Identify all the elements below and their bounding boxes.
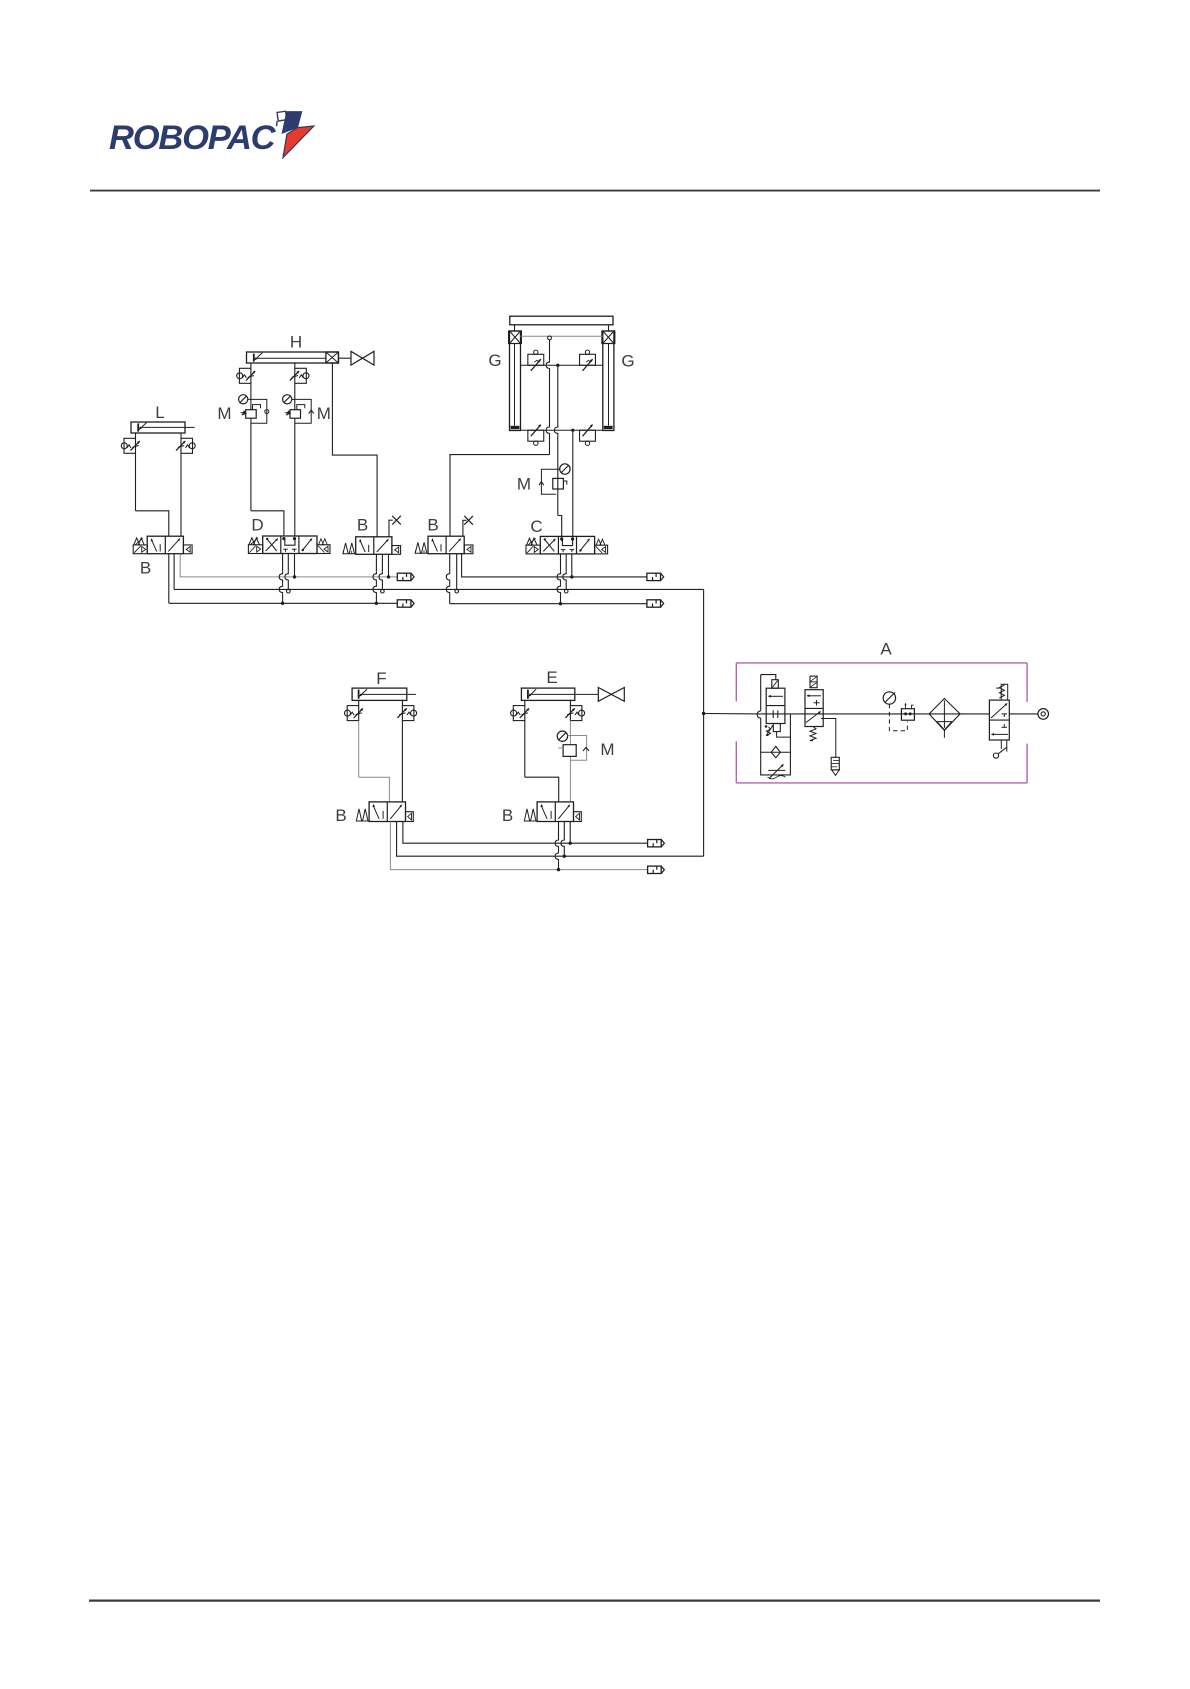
hand shut-off valve at E (bowtie) — [598, 688, 611, 702]
svg-text:A: A — [880, 640, 892, 659]
valve D 5/3 (cylinder H) — [263, 536, 317, 554]
wire G bottom line — [521, 429, 603, 431]
valve D port wires to buses — [282, 554, 284, 572]
logo lightning bolt navy flag — [282, 112, 302, 134]
check valve in soft-start — [761, 751, 791, 753]
svg-text:B: B — [140, 559, 151, 578]
svg-text:E: E — [546, 668, 557, 687]
silencer upper-left bus 1 — [397, 573, 411, 580]
svg-text:L: L — [155, 403, 164, 422]
valve B(L) port wire to bus 3 — [168, 554, 170, 603]
wire from G bottom line to valve C — [572, 430, 574, 536]
wire F left port — [358, 700, 360, 705]
wire E right port — [569, 700, 571, 705]
silencer upper-right bus 3 — [647, 600, 661, 607]
svg-text:G: G — [488, 351, 501, 370]
wire from G node down to valve B2 — [549, 340, 551, 360]
flow control valve at H left port — [237, 373, 243, 379]
cylinder G right — [603, 331, 614, 431]
throttle in soft-start — [768, 769, 785, 771]
wire G rod-end link line — [521, 335, 603, 337]
svg-text:B: B — [502, 806, 513, 825]
svg-text:M: M — [217, 404, 231, 423]
valve B 5/2 (cylinder F) — [369, 802, 405, 822]
wire from G mid line to valve C (via regulator) — [557, 365, 559, 425]
wire E right to valve — [569, 721, 571, 745]
valve B(F) port wire to bus 3 lower — [390, 822, 647, 870]
valve B 5/2 number 2 — [428, 536, 464, 554]
cylinder G left — [510, 331, 521, 431]
wire F right to valve — [401, 721, 403, 802]
svg-text:M: M — [317, 404, 331, 423]
valve B(F) port wire to bus 2 lower — [397, 822, 704, 857]
valve B 5/2 (cylinder L) — [147, 536, 183, 554]
svg-text:B: B — [335, 806, 346, 825]
wire regulator left to valve D — [251, 511, 284, 536]
valve B(L) port wire to bus 2 — [173, 554, 175, 590]
closed port marker X at valve B1 — [389, 520, 393, 537]
wire E left to valve — [524, 721, 526, 778]
flow control valve at L right port — [189, 443, 195, 449]
cylinder L body — [131, 422, 185, 433]
pressure regulator with gauge M (left, under H) — [250, 383, 252, 409]
svg-text:H: H — [290, 333, 302, 352]
logo small open square — [277, 111, 287, 121]
svg-text:M: M — [517, 475, 531, 494]
svg-text:D: D — [251, 516, 263, 535]
silencer upper-right bus 1 — [647, 573, 661, 580]
cylinder E body — [521, 688, 574, 700]
junction on G mid line — [556, 364, 559, 367]
wire F left to valve — [358, 721, 360, 778]
valve B(E) port wires to lower buses — [558, 822, 560, 839]
solenoid shut-off valve (unit A second element) — [810, 676, 817, 688]
wire from H X-box to valve B1 — [332, 363, 377, 537]
svg-text:B: B — [357, 516, 368, 535]
wire G mid line — [521, 364, 603, 366]
spring of manual valve — [1001, 684, 1008, 700]
pressure switch block in unit A — [901, 709, 914, 721]
flow control G upper-right — [580, 354, 596, 365]
violet group frame of unit A — [736, 662, 1027, 664]
exhaust branch to muffler — [821, 719, 836, 758]
svg-text:ROBOPAC: ROBOPAC — [109, 119, 277, 157]
node on G link line — [548, 336, 552, 340]
flow control valve at L left port — [121, 443, 127, 449]
main air line through unit A — [761, 713, 990, 715]
valve B1 port wires to buses — [375, 554, 377, 572]
silencer lower bus 1 — [648, 840, 662, 847]
valve B(L) port wire to bus 1 — [180, 554, 397, 577]
header horizontal rule — [90, 190, 1100, 192]
pressure gauge in unit A — [883, 692, 895, 704]
cylinder H coupling X-box — [326, 352, 339, 363]
manual actuator of valve — [1000, 740, 1002, 749]
manual shut-off valve (unit A last element) — [989, 700, 1009, 740]
cylinder G left stem — [514, 325, 516, 331]
valve B2 port wire to bus 2 — [456, 554, 458, 590]
silencer lower bus 3 — [648, 866, 662, 873]
bus 3 exhaust line upper-right — [450, 603, 647, 605]
footer horizontal rule — [89, 1599, 1100, 1601]
hand shut-off valve at H (bowtie) — [351, 351, 363, 365]
flow control G lower-right — [580, 430, 596, 441]
valve B 5/2 number 1 — [356, 537, 392, 555]
valve B2 port wire to bus 3 right — [449, 554, 451, 572]
cylinder G right stem — [608, 325, 610, 331]
wire L left port — [135, 433, 137, 438]
svg-text:B: B — [427, 516, 438, 535]
wire E left port — [524, 700, 526, 705]
flow control G lower-left — [528, 430, 544, 441]
wire H to hand valve — [338, 357, 351, 359]
valve C port wires to buses — [560, 554, 562, 572]
junction on G bottom line — [571, 429, 574, 432]
valve C top port dots — [560, 537, 563, 540]
flow control G upper-left — [528, 354, 544, 365]
pressure regulator with gauge M (at cylinder E) — [557, 731, 567, 741]
pressure regulator with gauge M (right, under H) — [294, 383, 296, 409]
wire H mid port — [294, 363, 296, 368]
wire L right to valve B — [180, 453, 182, 536]
filter with separator in unit A — [929, 699, 960, 731]
cylinder H body — [247, 352, 339, 363]
wire F right port — [401, 700, 403, 705]
bus 3 exhaust line upper-left — [169, 602, 397, 604]
flow control at F left port — [345, 710, 351, 716]
cylinders G top crossbar — [510, 316, 613, 325]
pressure regulator with gauge M (at valve C) — [560, 464, 570, 474]
closed port marker X at valve B2 — [463, 520, 467, 536]
wire L left to valve B — [135, 453, 137, 511]
svg-text:M: M — [600, 740, 614, 759]
svg-text:C: C — [530, 517, 542, 536]
valve B(F) port wire to bus 1 lower — [403, 822, 648, 844]
valve B 5/2 (cylinder E) — [537, 802, 573, 822]
cylinder F body — [352, 688, 407, 700]
valve B2 port wire to bus 1 right — [462, 554, 647, 577]
supply riser from bus 2 down to unit A and lower bus — [703, 589, 705, 856]
soft-start shut-off valve (unit A first element) — [761, 675, 776, 680]
silencer upper-left bus 3 — [397, 600, 411, 607]
valve D top port dots — [282, 537, 285, 540]
flow control at E left port — [511, 710, 517, 716]
wire H left port — [250, 363, 252, 368]
air outlet port circle — [1009, 713, 1038, 715]
flow control at F right port — [411, 710, 417, 716]
svg-text:F: F — [376, 669, 386, 688]
wire L right port — [180, 433, 182, 438]
flow control at E right port — [579, 710, 585, 716]
svg-text:G: G — [621, 352, 634, 371]
valve C 5/3 (cylinders G) — [540, 536, 594, 554]
bus 2 supply line upper — [174, 588, 704, 590]
logo lightning bolt red flash — [283, 126, 314, 158]
flow control valve at H mid port — [303, 373, 309, 379]
